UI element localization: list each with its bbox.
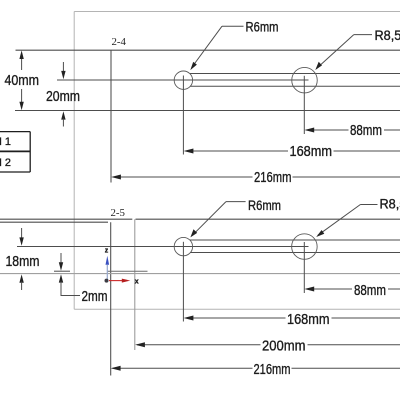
dimension 2mm lower shaft and elbow	[61, 282, 80, 296]
svg-text:200mm: 200mm	[262, 339, 306, 355]
2mm reference extension line	[54, 270, 70, 272]
svg-text:168mm: 168mm	[290, 144, 333, 160]
leader R6mm bottom horizontal	[226, 201, 246, 203]
svg-text:88mm: 88mm	[354, 283, 386, 299]
bottom view R6 circle	[174, 237, 192, 255]
svg-text:H 1: H 1	[0, 136, 11, 148]
svg-text:168mm: 168mm	[287, 312, 330, 328]
origin Z axis arrowhead	[106, 256, 110, 265]
dimension 200mm line	[137, 344, 261, 346]
svg-text:z: z	[105, 248, 109, 255]
dimension 88mm bottom arrow	[304, 287, 314, 292]
dimension 18mm lower shaft	[21, 282, 23, 291]
dimension 18mm arrow up	[19, 274, 23, 282]
bottom view bottom edge (gray)	[0, 273, 400, 275]
dimension 20mm upper shaft	[62, 62, 64, 72]
svg-text:R6mm: R6mm	[246, 19, 279, 35]
top view plate top edge with extension	[16, 49, 400, 51]
dimension 40mm vertical shafts	[21, 57, 23, 70]
svg-text:18mm: 18mm	[6, 254, 40, 270]
top view R8.5 center mark vertical + 88mm extension	[303, 76, 305, 134]
leader R8,5mm top arrowhead	[315, 62, 322, 70]
dimension 18mm arrow down	[19, 237, 23, 245]
bottom view R6 center mark vertical + 168mm extension	[182, 242, 184, 322]
dimension 20mm arrow down to slot centerline	[61, 71, 65, 79]
top view slot lower line	[190, 85, 400, 87]
top view R6 circle	[174, 71, 192, 89]
bottom view second top line	[0, 221, 108, 223]
dimension 20mm lower shaft	[62, 119, 64, 127]
dimension 216mm bottom line	[113, 367, 253, 369]
dimension 18mm upper shaft	[21, 228, 23, 239]
top view R8.5 circle	[292, 67, 318, 93]
dimension 168mm bottom arrow	[184, 316, 194, 321]
bottom view recess line	[107, 270, 148, 272]
svg-text:40mm: 40mm	[5, 73, 40, 89]
svg-text:2-5: 2-5	[111, 208, 126, 219]
svg-text:H 2: H 2	[0, 157, 11, 169]
dimension 20mm arrow up to plate bottom	[61, 111, 65, 119]
svg-text:R8,5mm: R8,5mm	[375, 28, 400, 43]
origin X axis arrowhead	[122, 279, 131, 283]
dimension 88mm bottom line	[306, 288, 352, 290]
origin Z axis shaft	[106, 265, 108, 281]
bottom view slot upper line	[190, 239, 400, 241]
leader R6mm top diagonal	[192, 26, 222, 67]
dimension 216mm top arrow	[111, 175, 121, 180]
svg-text:20mm: 20mm	[46, 89, 80, 105]
bottom view top edge right part	[136, 218, 400, 220]
bottom view slot centerline with 18mm extension	[17, 246, 309, 248]
sheet frame left edge	[73, 12, 75, 310]
svg-text:216mm: 216mm	[254, 170, 292, 186]
sheet frame top edge	[74, 11, 400, 13]
svg-text:216mm: 216mm	[254, 362, 291, 378]
dimension 88mm top line	[306, 129, 349, 131]
dimension 168mm top line	[186, 150, 289, 152]
leader R8,5mm top horizontal	[354, 34, 372, 36]
bottom view left edge + 216mm extension	[110, 222, 112, 375]
svg-text:2-4: 2-4	[112, 37, 127, 48]
dimension 216mm top line	[113, 176, 253, 178]
top view plate bottom edge with extension	[15, 110, 400, 112]
leader R6mm bottom diagonal	[192, 202, 226, 236]
leader R6mm bottom arrowhead	[190, 229, 197, 237]
origin X axis shaft	[109, 280, 123, 282]
dimension 40mm arrow down	[19, 102, 23, 111]
bottom view slot lower line	[190, 252, 400, 254]
dimension 2mm arrow down	[59, 262, 63, 270]
origin point	[105, 279, 109, 283]
dimension 2mm upper shaft	[60, 253, 62, 265]
dimension 2mm arrow up	[59, 274, 63, 282]
dimension 168mm bottom line	[186, 317, 286, 319]
svg-text:2mm: 2mm	[82, 289, 108, 305]
sheet frame bottom edge	[74, 308, 400, 310]
svg-text:88mm: 88mm	[350, 123, 382, 139]
dimension 216mm bottom arrow	[111, 366, 121, 371]
top view slot centerline	[57, 79, 309, 81]
svg-text:R6mm: R6mm	[248, 197, 281, 213]
leader R8,5mm bottom horizontal	[360, 204, 377, 206]
bottom view R8.5 center mark vertical + 88mm extension	[303, 242, 305, 293]
leader R6mm top horizontal	[222, 25, 244, 27]
dimension 40mm arrow up	[19, 50, 23, 59]
leader R8,5mm top diagonal	[317, 35, 354, 69]
balloon table box	[0, 132, 30, 172]
dimension 88mm top arrow	[304, 128, 314, 133]
svg-text:R8,5mm: R8,5mm	[380, 197, 400, 212]
top view plate left edge + 216mm extension line	[110, 50, 112, 182]
bottom view step line + 200mm extension	[134, 219, 136, 350]
leader R8,5mm bottom diagonal	[318, 205, 361, 236]
leader R8,5mm bottom arrowhead	[316, 230, 324, 237]
leader R6mm top arrowhead	[190, 62, 197, 70]
bottom view top edge left part	[0, 218, 132, 220]
top view slot upper line	[190, 73, 400, 75]
dimension 200mm arrow	[135, 342, 145, 347]
bottom view R8.5 circle	[292, 234, 318, 260]
top view R6 center mark vertical + 168mm extension	[182, 76, 184, 155]
dimension 168mm top arrow	[184, 149, 194, 154]
svg-text:x: x	[135, 279, 139, 286]
